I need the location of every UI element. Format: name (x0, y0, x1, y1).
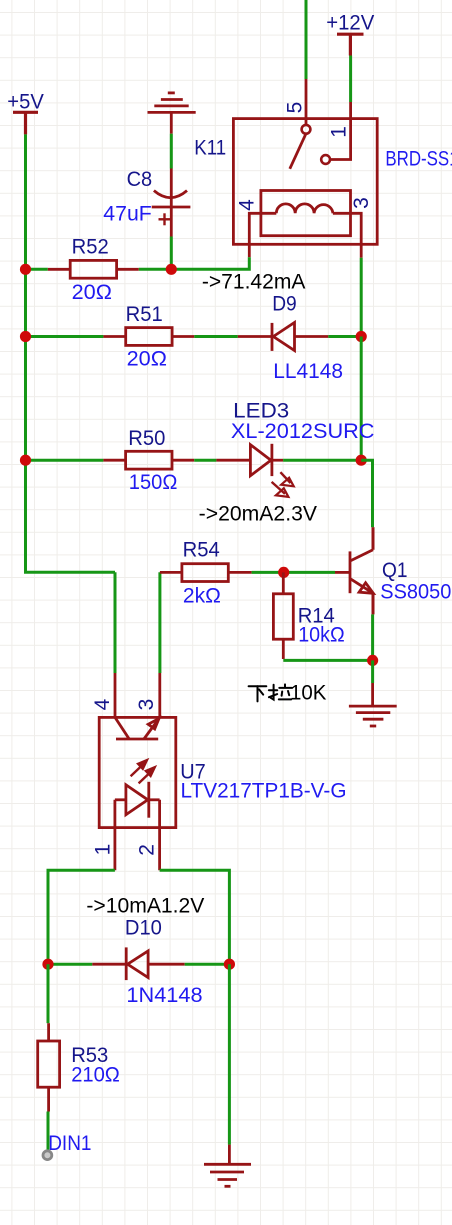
wire R50 to LED3 (194, 459, 216, 462)
svg-text:1: 1 (91, 844, 114, 856)
diode D10 (92, 947, 184, 980)
resistor R51 (103, 328, 194, 346)
svg-text:1N4148: 1N4148 (126, 984, 202, 1007)
wire left rail to U7 pin 4 (114, 572, 117, 673)
svg-text:K11: K11 (194, 137, 226, 160)
wire U7 pin2 to D10 right (160, 870, 230, 964)
U7 inner pin leads (115, 800, 160, 871)
relay coil box (261, 191, 351, 236)
relay pin 1 (330, 102, 351, 160)
relay switch contact circle B (321, 155, 330, 164)
relay pin 3 (333, 213, 361, 257)
svg-text:BRD-SS1: BRD-SS1 (385, 147, 452, 170)
optocoupler U7 box (99, 717, 176, 827)
junction node D10 left (42, 959, 53, 970)
svg-text:4: 4 (91, 698, 114, 710)
svg-text:LL4148: LL4148 (273, 360, 343, 383)
resistor R50 (103, 451, 194, 469)
ground (top, inverted) (148, 93, 196, 134)
relay pin 4 (249, 213, 276, 257)
U7 LED emission arrows (131, 759, 156, 783)
wire R54 to base node (252, 571, 284, 574)
svg-text:10kΩ: 10kΩ (298, 624, 345, 647)
wire D10 left node to R53 (47, 964, 50, 1023)
junction node D9/right rail (356, 331, 367, 342)
ground (Q1 emitter) (349, 683, 397, 726)
wire C8 to node (170, 237, 173, 270)
svg-text:Q1: Q1 (382, 559, 408, 582)
svg-text:R54: R54 (183, 539, 220, 562)
wire base node to Q1 (284, 571, 335, 574)
annotation 下拉10K (249, 684, 292, 701)
wire R54 row from rail (158, 572, 161, 673)
ground (bottom) (204, 1145, 251, 1187)
junction node C8/R52 (166, 264, 177, 275)
U7 pin 4 (114, 673, 117, 717)
power flag +5V (13, 112, 38, 134)
relay K11 outer box (233, 119, 377, 245)
relay pin 5 (305, 79, 308, 125)
port pad DIN1 (43, 1151, 52, 1160)
resistor R14 (273, 572, 293, 659)
svg-text:150Ω: 150Ω (129, 471, 178, 494)
svg-text:20Ω: 20Ω (72, 281, 112, 304)
junction node R52/+5V (20, 264, 31, 275)
wire node to ground (371, 660, 374, 683)
junction node R50/+5V (20, 455, 31, 466)
capacitor C8 (152, 169, 191, 237)
wire +5V rail vertical (26, 134, 116, 572)
LED LED3 (216, 444, 293, 497)
wire LED3 to right rail (283, 459, 361, 462)
svg-text:DIN1: DIN1 (48, 1132, 91, 1155)
svg-text:C8: C8 (127, 168, 153, 191)
resistor R52 (48, 260, 139, 278)
svg-text:R50: R50 (128, 427, 165, 450)
junction node R51/+5V (20, 331, 31, 342)
svg-text:XL-2012SURC: XL-2012SURC (231, 420, 375, 443)
svg-text:2: 2 (136, 844, 159, 856)
power flag +12V (337, 34, 364, 55)
svg-text:20Ω: 20Ω (127, 348, 167, 371)
wire relay pin 3 down to D9 row (360, 258, 363, 337)
wire relay pin 4 down to R52 row (171, 257, 249, 269)
wire +12V to relay pin 1 (349, 56, 352, 103)
wire R52 row left (26, 268, 48, 271)
svg-text:SS8050: SS8050 (380, 580, 451, 603)
svg-text:10K: 10K (290, 682, 327, 705)
relay switch contact circle A (302, 125, 311, 134)
svg-text:R52: R52 (72, 235, 109, 258)
wire D9 to right rail (328, 335, 361, 338)
junction node R54/R14/base (278, 567, 289, 578)
wire R51 to D9 (194, 335, 238, 338)
svg-text:LTV217TP1B-V-G: LTV217TP1B-V-G (181, 780, 347, 803)
svg-text:3: 3 (350, 197, 373, 209)
wire LED3 node to Q1 collector (361, 460, 372, 527)
relay switch blade (290, 134, 306, 169)
svg-text:5: 5 (284, 102, 307, 114)
svg-text:3: 3 (135, 699, 158, 711)
svg-text:D9: D9 (272, 293, 297, 316)
wire right to bottom ground (228, 964, 231, 1144)
junction node LED3/right rail (356, 455, 367, 466)
wire right rail D9 to LED3 (360, 337, 363, 461)
wire R52 to C8 node (139, 268, 172, 271)
wire R51 row left (26, 335, 104, 338)
wire D10 row left (48, 963, 92, 966)
diode D9 (238, 323, 328, 351)
svg-text:4: 4 (235, 199, 258, 211)
U7 pin 3 (158, 673, 161, 717)
svg-text:D10: D10 (125, 917, 162, 940)
svg-text:+5V: +5V (7, 90, 44, 113)
U7 phototransistor (115, 717, 159, 739)
wire R50 row left (26, 459, 104, 462)
wire ground to C8 (170, 134, 173, 169)
transistor Q1 (335, 527, 373, 614)
junction node emitter/R14 (367, 655, 378, 666)
svg-text:+12V: +12V (326, 12, 374, 35)
resistor R53 (38, 1023, 60, 1111)
junction node D10 right (224, 959, 235, 970)
svg-text:47uF: 47uF (103, 202, 152, 225)
svg-text:->10mA1.2V: ->10mA1.2V (86, 894, 204, 917)
svg-text:->71.42mA: ->71.42mA (202, 271, 306, 294)
wire top to relay pin 5 (305, 0, 308, 79)
resistor R54 (160, 564, 252, 582)
svg-text:2kΩ: 2kΩ (183, 585, 221, 608)
wire D10 to right (185, 963, 230, 966)
wire R53 to DIN1 (47, 1112, 50, 1154)
svg-text:1: 1 (327, 126, 350, 138)
wire R14 to emitter node (283, 659, 372, 662)
svg-text:->20mA2.3V: ->20mA2.3V (199, 503, 317, 526)
wire Q1 emitter to node (371, 614, 374, 660)
wire U7 pin1 to D10 left (48, 870, 115, 964)
relay coil inductor (276, 204, 333, 213)
svg-text:210Ω: 210Ω (71, 1064, 120, 1087)
U7 LED (115, 782, 160, 818)
svg-text:R51: R51 (126, 303, 163, 326)
